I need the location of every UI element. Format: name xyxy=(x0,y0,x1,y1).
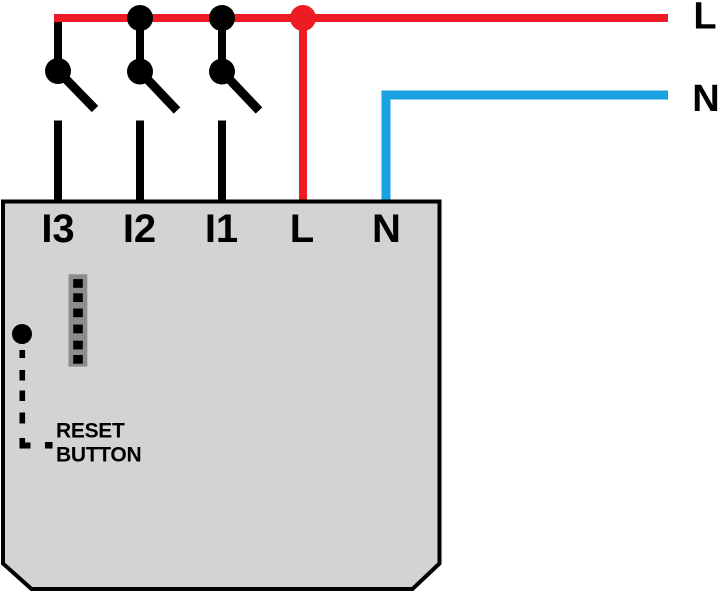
wire SW1 to terminal I1 xyxy=(218,121,226,204)
label RESET BUTTON xyxy=(56,420,141,467)
switch SW3 pivot contact xyxy=(45,58,71,84)
node junction SW2 on L line xyxy=(127,5,153,31)
svg-text:L: L xyxy=(693,0,716,38)
wire L line (red live conductor) xyxy=(54,14,668,22)
switch SW1 (input I1): top stub xyxy=(218,18,226,72)
svg-text:I3: I3 xyxy=(41,207,74,251)
svg-text:N: N xyxy=(372,207,401,251)
wire L drop to device terminal L xyxy=(299,18,307,203)
reset button indicator dot xyxy=(12,324,32,344)
svg-text:L: L xyxy=(290,207,314,251)
wire SW2 to terminal I2 xyxy=(136,121,144,204)
svg-text:N: N xyxy=(692,78,719,120)
svg-text:RESET: RESET xyxy=(56,420,125,443)
leader line (dashed) from reset button to label xyxy=(20,350,53,449)
switch SW3 (input I3): top stub xyxy=(54,17,62,71)
switch SW1 pivot contact xyxy=(209,59,235,85)
svg-text:BUTTON: BUTTON xyxy=(56,444,141,467)
node junction SW1 on L line xyxy=(209,5,235,31)
svg-text:I1: I1 xyxy=(205,207,238,251)
node red junction on L line xyxy=(290,5,316,31)
wire SW3 to terminal I3 xyxy=(54,121,62,204)
switch SW2 pivot contact xyxy=(127,59,153,85)
switch SW2 blade xyxy=(140,72,177,111)
switch SW3 blade xyxy=(58,71,95,109)
switch SW1 blade xyxy=(222,72,259,111)
switch SW2 (input I2): top stub xyxy=(136,18,144,72)
device body (relay module, chamfered bottom corners) xyxy=(3,202,440,590)
wire N line (blue neutral conductor) with corner drop to terminal N xyxy=(386,95,668,203)
pin header connector J1 xyxy=(69,274,88,366)
svg-text:I2: I2 xyxy=(123,207,156,251)
